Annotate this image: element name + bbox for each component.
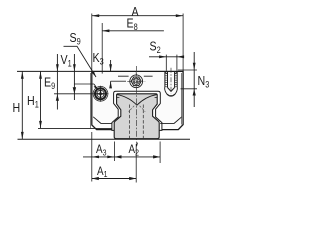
dimension E9 [44,71,59,109]
dimension A2 [115,142,161,164]
center line of rail [136,66,138,144]
svg-text:N3: N3 [198,73,210,90]
svg-text:H1: H1 [27,93,39,110]
carriage inner cavity (white gap around rail) [112,91,162,130]
carriage top extension line L1 [17,70,92,72]
svg-text:S9: S9 [70,30,82,47]
svg-text:A3: A3 [96,143,106,157]
mounting plane line [18,138,191,140]
carriage wing inner bottom chamfer left [93,117,112,124]
S2 threaded hole [165,68,178,97]
svg-text:E9: E9 [44,74,56,91]
rail top V groove [117,95,157,106]
lube axis extension line [54,93,92,95]
svg-text:H: H [13,100,21,115]
dimension H1 [27,71,42,128]
top lube port circle [127,72,145,89]
H1 bottom extension line [38,127,112,129]
left lube port circle [93,86,109,102]
label S9 with leader [64,30,97,77]
carriage body outline [92,71,183,129]
dimension K3 [93,50,127,88]
dimension A [92,4,183,71]
carriage wing inner bottom chamfer right [160,117,182,124]
carriage inner edge lines [89,73,91,128]
dimension A1 [92,144,136,183]
dimension V1 [56,52,76,100]
rail [114,94,159,139]
top recess line on carriage [118,75,153,77]
dimension H [13,71,24,139]
small ref line and arrows at x74.4 [73,84,98,94]
svg-text:S2: S2 [150,39,162,56]
svg-text:V1: V1 [61,52,73,69]
dimension E8 [102,15,164,73]
svg-text:A2: A2 [129,143,139,157]
rail bolt hole hidden lines [129,105,131,139]
dimension N3 [178,52,210,107]
dimension A3 [83,132,115,182]
dimension S2 [149,39,184,71]
